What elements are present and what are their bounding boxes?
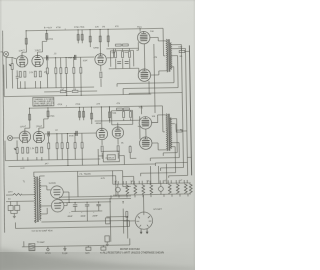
schematic left border	[1, 31, 6, 233]
wire V2 out to splitter	[107, 49, 114, 58]
resistor R16b	[115, 44, 121, 46]
output tube V9	[139, 137, 152, 150]
output transformer T1 secondary	[170, 43, 172, 70]
svg-text:6AN8: 6AN8	[93, 46, 99, 49]
svg-text:6AN8: 6AN8	[96, 122, 102, 125]
capacitor C9	[48, 131, 49, 136]
wire rect outputs	[63, 192, 69, 206]
svg-text:47K: 47K	[115, 26, 119, 28]
input jack J2	[7, 135, 12, 140]
wire bus2 drops	[29, 107, 109, 128]
jack J1 hatch	[4, 53, 8, 56]
wire V5 plates	[25, 128, 44, 132]
wire ground bus A	[17, 87, 94, 88]
capacitor C12	[85, 202, 90, 211]
resistor R27	[22, 147, 24, 153]
resistor R14	[65, 68, 67, 74]
filament box	[78, 170, 131, 196]
wire input2	[12, 137, 19, 139]
wire pot R9b	[16, 140, 18, 160]
resistor R33	[117, 146, 119, 152]
resistor R6	[89, 36, 91, 42]
resistor R38 bias	[126, 212, 128, 218]
switch S1	[8, 205, 13, 210]
capacitor C13	[96, 202, 101, 211]
wire T3 to rectifiers	[40, 186, 52, 214]
resistor R4	[77, 34, 79, 40]
resistor R10 cathode	[19, 71, 21, 77]
resistor R26	[91, 113, 93, 119]
terminal box C	[101, 247, 106, 250]
svg-text:1.5K: 1.5K	[30, 148, 35, 150]
wire left verticals 2	[4, 141, 6, 161]
wire R29	[48, 136, 50, 159]
tube V7	[112, 127, 124, 139]
svg-text:270K: 270K	[48, 39, 54, 41]
resistor R25	[83, 111, 85, 117]
filament F7	[176, 184, 179, 194]
resistor R13b	[60, 68, 62, 74]
svg-text:117V: 117V	[8, 191, 13, 193]
capacitor C8	[41, 147, 43, 153]
wire socket leads	[123, 195, 144, 234]
capacitor C1 cathode	[24, 71, 26, 77]
wire left verticals	[3, 65, 6, 97]
wire PS top bus	[34, 171, 123, 173]
terminal box B	[86, 247, 91, 250]
resistor R34b	[117, 108, 123, 110]
wire jack J1 down	[5, 57, 8, 89]
wire V1 plates up	[22, 52, 43, 56]
bottom notes	[103, 248, 164, 254]
svg-text:16Ω: 16Ω	[178, 46, 182, 48]
filament F9	[189, 184, 192, 194]
svg-text:FUSE: FUSE	[62, 253, 68, 255]
wire R30	[56, 134, 58, 160]
resistor R13	[55, 68, 57, 74]
tube V5B	[33, 131, 45, 143]
box fuse F10	[105, 236, 110, 242]
wire bias	[126, 210, 128, 226]
component M1	[64, 246, 66, 251]
wire secondary taps 2	[171, 119, 179, 147]
resistor R22	[47, 111, 49, 117]
wire V8 plate to OPT2	[151, 115, 166, 123]
resistor R36	[130, 111, 132, 117]
resistor R14c	[80, 67, 82, 73]
resistor R14b	[73, 67, 75, 73]
svg-text:270K: 270K	[50, 116, 56, 118]
wire pot R9	[6, 57, 17, 88]
resistor R34	[109, 112, 111, 118]
filament F8	[184, 184, 187, 194]
capacitor C3	[47, 55, 48, 60]
resistor R35	[123, 112, 125, 118]
svg-text:6.3V: 6.3V	[20, 168, 25, 170]
tube V2	[95, 54, 107, 66]
schematic right border	[189, 45, 191, 175]
resistor R11 cathode	[34, 71, 36, 77]
svg-text:470K: 470K	[69, 135, 75, 137]
wire PS lower runs	[15, 219, 129, 228]
tiny value labels (texture)	[0, 25, 186, 256]
resistor R28	[36, 147, 38, 153]
filament F4	[142, 184, 145, 194]
pilot lamp P1	[115, 187, 120, 192]
wire B+ bus 2	[29, 106, 162, 108]
svg-text:10K: 10K	[152, 116, 156, 118]
AC line fuse	[13, 193, 22, 195]
power transformer T3 primary	[34, 177, 36, 223]
pot R9 arrow	[9, 64, 11, 66]
wire V4 cathode down	[148, 44, 155, 105]
svg-text:B+ 410V: B+ 410V	[44, 27, 53, 29]
wire inter bus	[44, 90, 97, 93]
wire terminal drops	[88, 245, 103, 247]
tube V1B	[32, 55, 44, 67]
tube V5A	[19, 131, 31, 143]
wire R39	[130, 145, 136, 158]
ground arrow PS2	[106, 242, 109, 246]
pilot lamp P2	[158, 186, 163, 191]
rectifier V11	[51, 199, 64, 212]
wire heater feeds	[112, 164, 166, 184]
wire T3 top leads	[34, 172, 45, 179]
capacitor C2 cathode	[39, 71, 41, 77]
svg-text:56K: 56K	[111, 52, 115, 54]
wire ground bus B	[4, 94, 151, 97]
svg-text:56K: 56K	[124, 52, 128, 54]
output transformer T1 primary	[166, 39, 168, 72]
wire R13	[55, 58, 58, 88]
svg-text:470K: 470K	[68, 57, 74, 59]
wire B+ top bus	[26, 28, 163, 30]
filament F2	[126, 185, 129, 195]
resistor R21	[29, 114, 31, 120]
wire R14	[65, 58, 68, 96]
resistor R31b	[74, 142, 76, 148]
svg-text:47K: 47K	[44, 72, 48, 74]
wire ground rails PS	[59, 196, 131, 200]
capacitor C7	[27, 147, 29, 153]
svg-text:1M: 1M	[102, 26, 105, 28]
resistor R24	[79, 111, 81, 117]
capacitor C10 line	[15, 205, 20, 210]
svg-text:TO AMP: TO AMP	[37, 241, 45, 244]
lamp P1 leads	[117, 184, 119, 195]
resistor R2	[46, 33, 48, 39]
resistor R32	[101, 146, 103, 152]
resistor R12	[46, 68, 48, 74]
output transformer T2 primary	[166, 114, 168, 151]
svg-text:10K: 10K	[150, 31, 154, 33]
jack J2 hatch	[8, 137, 11, 140]
wire feedback nest	[116, 44, 186, 94]
pot R9b volume	[16, 147, 18, 153]
svg-text:WATCH FOR HUM.: WATCH FOR HUM.	[120, 248, 141, 251]
wire heater bottom ticks	[119, 194, 188, 198]
box output inner	[107, 155, 115, 160]
resistor R7	[99, 36, 101, 42]
wire splitter rail 2	[95, 119, 138, 122]
wire terminal line	[22, 238, 130, 246]
connector P1	[29, 244, 35, 251]
wire splitter mesh	[108, 48, 136, 68]
output transformer T1 core	[169, 39, 170, 72]
svg-text:1.5K: 1.5K	[29, 72, 34, 74]
svg-text:FIL. TRANS: FIL. TRANS	[80, 173, 92, 176]
wire V6 V7 leads	[102, 123, 119, 159]
resistor R17	[121, 52, 123, 58]
resistor R31c	[81, 142, 83, 148]
svg-text:1M: 1M	[73, 89, 76, 91]
svg-text:12AX7: 12AX7	[34, 49, 41, 52]
note box	[33, 97, 54, 106]
svg-text:20MF: 20MF	[92, 215, 98, 217]
wire R31b	[74, 133, 76, 159]
power transformer T3 secondary	[39, 179, 41, 221]
svg-text:22K: 22K	[95, 26, 99, 28]
output tube V8	[139, 117, 152, 130]
pot R9 volume	[11, 64, 13, 70]
heater bus top	[113, 183, 191, 184]
output tube V3	[137, 31, 150, 44]
wire to grids 2	[138, 116, 140, 139]
svg-text:22K: 22K	[96, 103, 100, 105]
wire ground bus 2	[5, 158, 155, 167]
wire V4 plate to OPT	[151, 71, 167, 75]
wire R12	[46, 60, 48, 87]
wire mesh 2	[109, 106, 132, 124]
wire R13b	[60, 58, 63, 88]
wire to output grids	[136, 42, 139, 72]
output tube V4	[138, 69, 151, 82]
resistor R29	[48, 143, 50, 149]
wire B+ to OPT center	[140, 28, 165, 56]
svg-text:470K: 470K	[57, 104, 63, 106]
wire V1 cathodes down	[20, 64, 40, 88]
wire R31	[66, 134, 69, 166]
pot R9b arrow	[14, 148, 16, 150]
text note lines	[34, 98, 55, 107]
input jack J1	[3, 51, 8, 56]
tube V1A	[16, 56, 28, 68]
resistor R16	[114, 52, 116, 58]
ground symbol PS	[13, 213, 16, 218]
tube V6	[96, 128, 108, 140]
wire V9 plate to OPT2	[152, 143, 167, 150]
resistor R5	[81, 34, 83, 40]
wire load	[181, 45, 191, 175]
wire R37 leads	[176, 123, 187, 131]
capacitor C9b	[76, 131, 77, 136]
svg-text:5U4GB: 5U4GB	[49, 183, 56, 185]
wire AC input	[6, 195, 34, 202]
resistor R30b	[61, 143, 63, 149]
svg-text:100K: 100K	[83, 60, 89, 62]
svg-text:40MF: 40MF	[80, 216, 86, 218]
wire screen tie 2	[145, 129, 147, 137]
wire V3 plate to OPT	[150, 37, 166, 41]
capacitor C4	[117, 62, 121, 64]
filament F6	[168, 184, 171, 194]
resistor R37	[176, 130, 182, 132]
rectifier V10	[51, 186, 64, 199]
capacitor C3b	[75, 55, 76, 60]
wire PS feeder	[106, 198, 128, 241]
box output label	[103, 151, 119, 162]
capacitor C5	[125, 62, 129, 64]
svg-text:C29 40-40-20MF 450V: C29 40-40-20MF 450V	[32, 230, 54, 232]
wire R31c	[81, 133, 84, 165]
wire R30b	[61, 134, 63, 160]
svg-text:8Ω: 8Ω	[180, 56, 183, 58]
svg-text:40MF: 40MF	[67, 216, 73, 218]
wire bus drops	[26, 29, 108, 52]
wire secondary taps	[171, 44, 186, 66]
resistor R1	[25, 38, 27, 44]
svg-text:12AX7: 12AX7	[36, 125, 43, 128]
wire right bundle	[154, 87, 187, 171]
svg-text:270K 270K: 270K 270K	[74, 27, 85, 29]
resistor R15 V2 cathode	[100, 72, 102, 78]
resistor R16c	[122, 44, 128, 46]
heater bus bottom	[113, 194, 191, 195]
wire V5 cathodes	[22, 140, 41, 161]
tube socket V12	[135, 212, 153, 234]
speaker terminal A	[47, 246, 49, 251]
wire coupling V1B to V2	[43, 56, 94, 59]
capacitor C0	[16, 70, 19, 88]
svg-text:8Ω: 8Ω	[180, 130, 183, 132]
resistor R39	[129, 147, 131, 153]
wire R14c	[80, 57, 83, 95]
paper background	[0, 0, 195, 270]
svg-text:OUTPUT: OUTPUT	[105, 158, 114, 160]
resistor R31	[67, 143, 69, 149]
svg-text:GND: GND	[85, 253, 90, 255]
wire coupling 2	[45, 132, 96, 135]
switch box S2	[106, 218, 111, 224]
svg-text:SPKR: SPKR	[45, 253, 51, 255]
svg-text:56K: 56K	[113, 113, 117, 115]
svg-text:AS SHOWN ABOVE: AS SHOWN ABOVE	[34, 104, 53, 107]
resistor R8	[107, 36, 109, 42]
svg-text:47K: 47K	[116, 103, 120, 105]
wire box leads	[98, 149, 124, 165]
power transformer T3 core	[37, 177, 39, 223]
resistor R34c	[124, 108, 130, 110]
wire switch leads	[11, 201, 18, 213]
wire nest 2	[140, 118, 192, 178]
wire R14b	[73, 57, 76, 87]
wire B+2 to OPT2	[141, 105, 164, 132]
wire cap ground bus	[71, 211, 102, 222]
lamp P2 leads	[160, 183, 162, 194]
svg-text:12AX7: 12AX7	[20, 125, 27, 128]
svg-text:12AX7: 12AX7	[18, 49, 25, 52]
resistor R30	[56, 143, 58, 149]
svg-text:6.3V: 6.3V	[101, 178, 106, 180]
svg-text:270K: 270K	[75, 104, 81, 106]
wire splitter top rail	[106, 47, 138, 50]
svg-text:470K: 470K	[56, 27, 62, 29]
output transformer T2 core	[168, 114, 169, 151]
wire heater stubs	[115, 180, 187, 184]
capacitor C6 inter	[60, 91, 66, 93]
resistor R18	[128, 52, 130, 58]
resistor R20 inter	[72, 90, 78, 92]
filament F3	[134, 185, 137, 195]
wire heater left stub	[110, 195, 112, 198]
wire V2 plate/cathode	[99, 50, 102, 87]
wire screen tie	[143, 44, 145, 69]
resistor R19 load	[179, 50, 185, 52]
wire B bus	[59, 201, 111, 204]
filament F5	[150, 184, 153, 194]
svg-text:SOCKET: SOCKET	[153, 209, 162, 211]
output transformer T2 secondary	[170, 118, 172, 149]
capacitor C11	[73, 202, 78, 211]
